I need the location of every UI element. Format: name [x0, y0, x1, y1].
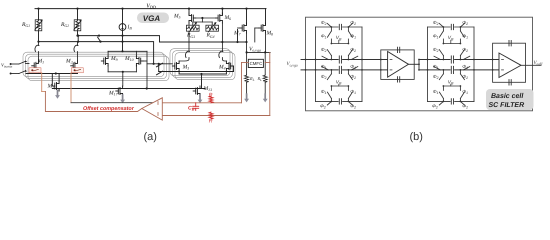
svg-text:(a): (a): [144, 131, 157, 143]
svg-text:SC FILTER: SC FILTER: [489, 102, 525, 109]
svg-text:(b): (b): [410, 131, 423, 143]
svg-text:VGA: VGA: [143, 14, 161, 23]
svg-text:R: R: [209, 93, 213, 99]
svg-text:Offset compensator: Offset compensator: [83, 106, 135, 112]
svg-text:Basic cell: Basic cell: [491, 92, 524, 100]
svg-text:R: R: [209, 119, 213, 125]
svg-text:CMFC: CMFC: [250, 61, 263, 66]
svg-text:VDD: VDD: [146, 3, 156, 9]
